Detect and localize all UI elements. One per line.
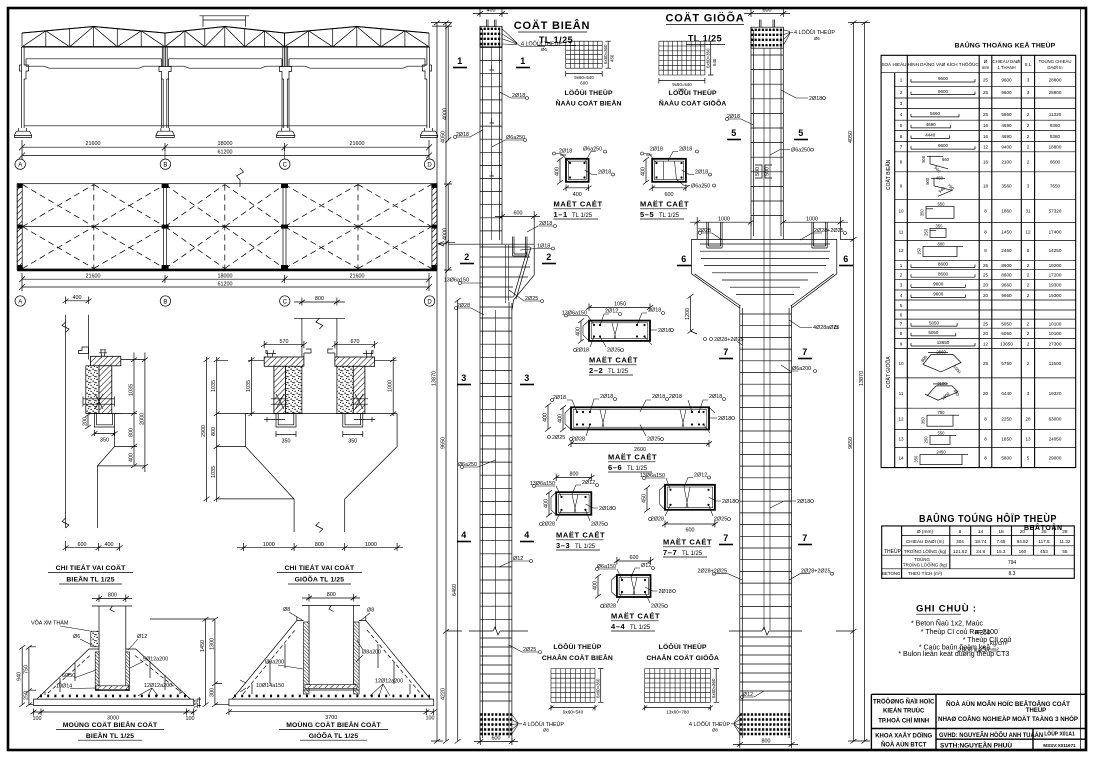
svg-text:1000: 1000 <box>263 542 275 548</box>
col bien: section mark 4 right <box>520 530 534 542</box>
svg-text:500: 500 <box>921 155 926 163</box>
svg-text:1300: 1300 <box>209 638 215 650</box>
cot giua row 9 <box>900 340 1062 346</box>
svg-text:350: 350 <box>936 223 944 228</box>
corbel detail bien: top dim 400 <box>63 295 92 304</box>
svg-text:800: 800 <box>938 242 946 247</box>
title block: svth <box>940 743 1012 750</box>
svg-text:304: 304 <box>956 539 964 544</box>
svg-text:800: 800 <box>327 592 336 598</box>
svg-text:TL 1/25: TL 1/25 <box>659 213 680 219</box>
footing bien: dashed rebar in slopes <box>45 656 182 696</box>
svg-text:2Ø18: 2Ø18 <box>648 308 661 314</box>
truss bay A-B <box>22 27 165 47</box>
svg-text:MAËT CAÉT: MAËT CAÉT <box>611 612 660 621</box>
svg-text:9: 9 <box>900 183 903 188</box>
svg-text:4: 4 <box>461 530 467 540</box>
svg-text:13870: 13870 <box>432 371 438 386</box>
svg-text:MOÙNG COÄT BIEÂN COÄT: MOÙNG COÄT BIEÂN COÄT <box>286 720 381 729</box>
svg-text:BIEÂN TL 1/25: BIEÂN TL 1/25 <box>86 731 134 740</box>
roof plan outline <box>17 184 437 270</box>
svg-text:121.62: 121.62 <box>953 549 967 554</box>
svg-text:8: 8 <box>984 248 987 253</box>
svg-text:2Ø18: 2Ø18 <box>598 169 611 175</box>
corbel giua: bolt marks right <box>351 394 368 409</box>
svg-text:1450: 1450 <box>200 640 206 652</box>
cot giua row 8 <box>900 330 1062 336</box>
svg-text:400: 400 <box>576 327 582 336</box>
svg-text:150: 150 <box>194 700 200 709</box>
svg-text:5: 5 <box>900 303 903 308</box>
svg-text:19320: 19320 <box>1049 391 1062 396</box>
svg-text:800: 800 <box>129 428 135 437</box>
svg-text:9x60=540: 9x60=540 <box>563 710 584 715</box>
svg-text:400: 400 <box>73 295 82 301</box>
svg-text:D: D <box>427 163 432 169</box>
cot giua row 3 <box>900 281 1062 287</box>
svg-text:8: 8 <box>900 331 903 336</box>
svg-text:9380: 9380 <box>1050 123 1061 128</box>
col giua: top rebar prongs <box>760 20 775 28</box>
mesh dau cot bien <box>566 41 615 85</box>
svg-text:2: 2 <box>1027 160 1030 165</box>
truss bay C-D <box>285 27 430 47</box>
svg-text:MAËT CAÉT: MAËT CAÉT <box>608 453 657 462</box>
svg-text:TL 1/25: TL 1/25 <box>572 213 593 219</box>
svg-text:9650: 9650 <box>848 437 854 449</box>
col giua: section mark 6 left <box>677 254 691 266</box>
svg-text:500: 500 <box>765 167 771 176</box>
footing giua: side hatch strips <box>304 622 360 694</box>
svg-text:1000: 1000 <box>365 542 377 548</box>
svg-text:350: 350 <box>348 439 357 445</box>
title block: project <box>938 701 1078 723</box>
corbel bien: crane rail <box>79 347 108 356</box>
svg-text:400: 400 <box>555 167 561 176</box>
svg-text:5: 5 <box>1027 455 1030 460</box>
svg-text:9600: 9600 <box>1001 90 1012 95</box>
svg-text:9660: 9660 <box>1001 283 1012 288</box>
svg-text:600: 600 <box>630 555 639 561</box>
col bien: corbel U stirrup <box>513 237 528 257</box>
col giua: mesh fan leader <box>783 29 835 45</box>
svg-text:Ø (mm): Ø (mm) <box>917 529 934 535</box>
svg-text:19200: 19200 <box>1049 263 1062 268</box>
svg-text:21600: 21600 <box>350 273 365 279</box>
svg-text:ÑAÀU COÄT GIÖÕA: ÑAÀU COÄT GIÖÕA <box>659 99 727 108</box>
plan dim line 61200 <box>19 281 432 291</box>
svg-text:500: 500 <box>755 167 761 176</box>
svg-text:3: 3 <box>1027 183 1030 188</box>
svg-text:2Ø12: 2Ø12 <box>694 472 707 478</box>
svg-text:11.32: 11.32 <box>1059 539 1071 544</box>
col bien: section mark 4 left <box>457 530 471 542</box>
svg-text:Ø6: Ø6 <box>814 36 820 41</box>
svg-text:2: 2 <box>1027 112 1030 117</box>
svg-text:S.L: S.L <box>1025 62 1032 67</box>
svg-text:6–6: 6–6 <box>608 463 622 472</box>
col giua: corbel U stirrups <box>707 223 827 249</box>
corbel bien: seat box <box>86 413 121 427</box>
svg-text:550: 550 <box>938 430 946 435</box>
svg-text:9650: 9650 <box>441 437 447 449</box>
svg-text:250: 250 <box>23 691 29 700</box>
svg-text:2: 2 <box>900 90 903 95</box>
crane beam bay C-D <box>289 59 425 68</box>
grid bubbles row 1 <box>15 147 435 169</box>
svg-text:4–4: 4–4 <box>611 622 626 631</box>
svg-text:2Ø18: 2Ø18 <box>718 416 731 422</box>
vdim chain left 13870 <box>431 21 452 744</box>
svg-text:1850: 1850 <box>1001 436 1012 441</box>
cot bien row 4 <box>900 111 1062 117</box>
svg-text:3: 3 <box>1027 391 1030 396</box>
svg-text:Ø: Ø <box>984 59 988 64</box>
svg-text:6x60=360: 6x60=360 <box>603 44 608 64</box>
col bien: corbel <box>448 216 534 310</box>
svg-text:2Ø12: 2Ø12 <box>582 480 595 486</box>
col bien: tie bars lower <box>480 318 512 619</box>
svg-text:29000: 29000 <box>1049 455 1062 460</box>
svg-text:28: 28 <box>1062 529 1068 535</box>
col bien: mesh fan leader <box>502 29 562 52</box>
cot giua row 10 <box>898 350 1061 375</box>
svg-text:21600: 21600 <box>350 141 365 147</box>
svg-text:2Ø28: 2Ø28 <box>603 604 616 610</box>
mesh chan cot bien <box>549 669 604 715</box>
svg-text:9600: 9600 <box>933 292 944 297</box>
svg-text:Ø8: Ø8 <box>543 728 549 733</box>
section 7-7 label <box>663 538 712 558</box>
svg-text:2Ø18: 2Ø18 <box>722 499 735 505</box>
section 3-3 <box>530 472 616 528</box>
corbel bien: bottom dim 600 400 <box>63 541 123 551</box>
svg-text:9x60=540: 9x60=540 <box>672 82 692 87</box>
svg-text:12: 12 <box>898 248 904 253</box>
cot bien row 3 <box>900 101 903 106</box>
col bien: mid vert dim 400 <box>543 403 566 441</box>
svg-text:61200: 61200 <box>218 150 233 156</box>
svg-text:3560: 3560 <box>1001 183 1012 188</box>
col giua: left bar label <box>704 337 744 345</box>
svg-text:C: C <box>283 299 288 305</box>
svg-text:CHIEÀU DAØI (m): CHIEÀU DAØI (m) <box>906 538 944 544</box>
svg-text:2Ø18: 2Ø18 <box>576 348 589 354</box>
footing giua: titles <box>279 720 388 740</box>
svg-text:800: 800 <box>315 542 324 548</box>
svg-text:11320: 11320 <box>1049 112 1062 117</box>
svg-text:2Ø25: 2Ø25 <box>651 604 664 610</box>
svg-text:2Ø18: 2Ø18 <box>659 589 672 595</box>
footing bien: stipple block <box>91 631 99 647</box>
svg-text:20: 20 <box>983 283 989 288</box>
section 2-2 label <box>589 356 638 376</box>
svg-text:150: 150 <box>917 247 922 255</box>
corbel bien: dim 350 <box>91 430 117 444</box>
svg-text:TL 1/25: TL 1/25 <box>575 544 596 550</box>
svg-text:2: 2 <box>464 252 470 262</box>
svg-text:CHAÂN COÄT GIÖÕA: CHAÂN COÄT GIÖÕA <box>646 653 719 662</box>
svg-text:450: 450 <box>936 175 944 180</box>
footing bien: top dim 800 <box>92 593 132 602</box>
footing giua: top dim 800 <box>302 592 360 601</box>
col giua: corbel dims 1000 <box>690 216 848 226</box>
svg-text:3: 3 <box>1027 77 1030 82</box>
svg-text:2Ø18: 2Ø18 <box>727 114 740 120</box>
svg-text:2Ø25: 2Ø25 <box>523 647 536 653</box>
svg-text:450: 450 <box>610 54 615 62</box>
table tong hop thep: frame <box>882 526 1075 578</box>
svg-text:13x60=780: 13x60=780 <box>666 710 689 715</box>
svg-text:1200: 1200 <box>685 308 691 320</box>
svg-text:1000: 1000 <box>718 216 730 222</box>
svg-text:670: 670 <box>351 339 360 345</box>
svg-text:600: 600 <box>514 211 523 217</box>
col giua: title <box>666 12 745 45</box>
svg-text:20: 20 <box>983 331 989 336</box>
svg-text:6: 6 <box>843 254 849 264</box>
svg-text:600: 600 <box>580 81 588 86</box>
svg-text:Ø6: Ø6 <box>541 47 547 52</box>
svg-text:3–3: 3–3 <box>556 541 570 550</box>
svg-text:2Ø18: 2Ø18 <box>797 499 810 505</box>
corbel giua: bolt marks left <box>271 394 288 409</box>
svg-text:13650: 13650 <box>1000 341 1013 346</box>
svg-text:9600: 9600 <box>938 143 949 148</box>
svg-text:13870: 13870 <box>859 371 865 386</box>
column C <box>280 47 292 128</box>
svg-text:A: A <box>18 163 22 169</box>
svg-text:940: 940 <box>17 672 23 681</box>
ground line elevation <box>24 125 427 127</box>
svg-text:GIÖÕA TL 1/25: GIÖÕA TL 1/25 <box>295 574 345 583</box>
corbel bien: right dim chain 2235 <box>137 353 148 473</box>
svg-text:16: 16 <box>983 123 989 128</box>
svg-text:DAØI m: DAØI m <box>1047 65 1063 70</box>
corbel bien: right dim chain 1035 800 400 <box>98 353 138 469</box>
svg-text:9: 9 <box>900 341 903 346</box>
svg-text:5: 5 <box>1027 248 1030 253</box>
svg-text:10: 10 <box>898 361 904 366</box>
svg-text:18000: 18000 <box>218 273 233 279</box>
svg-text:2Ø18: 2Ø18 <box>599 506 612 512</box>
col bien: bottom mesh block <box>480 715 512 735</box>
svg-text:THEÙP: THEÙP <box>884 548 902 555</box>
col giua: foundation line <box>729 627 802 635</box>
col bien: leader labels <box>444 92 557 654</box>
corbel giua: upper column <box>294 318 345 360</box>
svg-text:VÕA XM THÁM: VÕA XM THÁM <box>31 620 69 627</box>
col bien: section mark 3 left <box>457 373 471 385</box>
col bien: top dim 400 <box>473 8 508 17</box>
title block: school <box>873 698 935 725</box>
section 5-5 <box>641 146 716 198</box>
corbel bien: hatched corbel face <box>99 366 112 414</box>
svg-text:14: 14 <box>898 455 904 460</box>
elevation height dim 4000 <box>432 23 452 143</box>
svg-text:MAËT CAÉT: MAËT CAÉT <box>589 356 638 365</box>
svg-text:800: 800 <box>108 593 117 599</box>
col bien: section mark 2 right <box>542 252 556 264</box>
col bien: top rebar prongs <box>487 20 497 28</box>
svg-text:2Ø12: 2Ø12 <box>605 309 618 315</box>
svg-text:12: 12 <box>1025 229 1031 234</box>
svg-text:2Ø18: 2Ø18 <box>553 395 566 401</box>
section 3-3 label <box>556 531 605 551</box>
svg-text:14: 14 <box>978 529 984 535</box>
svg-text:2Ø25: 2Ø25 <box>525 296 538 302</box>
svg-text:4050: 4050 <box>848 131 854 143</box>
svg-text:COÄT GIÖÕA: COÄT GIÖÕA <box>885 356 892 388</box>
footing giua: outline <box>229 617 434 706</box>
svg-text:LÔÙP X01A1: LÔÙP X01A1 <box>1044 730 1075 738</box>
col giua: section mark 7b right <box>798 533 812 545</box>
svg-text:6440: 6440 <box>1001 391 1012 396</box>
svg-text:2Ø25: 2Ø25 <box>647 437 660 443</box>
svg-text:2: 2 <box>1027 263 1030 268</box>
svg-text:350: 350 <box>920 209 925 217</box>
svg-text:6x60=360: 6x60=360 <box>711 678 716 698</box>
svg-text:11: 11 <box>899 229 904 234</box>
svg-text:1035: 1035 <box>129 384 135 396</box>
svg-text:20: 20 <box>983 293 989 298</box>
svg-text:2Ø28: 2Ø28 <box>651 517 664 523</box>
svg-text:Ø6a250: Ø6a250 <box>583 146 602 152</box>
col giua: section mark 7b left <box>719 533 733 545</box>
svg-text:5: 5 <box>731 128 737 138</box>
col bien: section mark 1 right <box>516 56 530 68</box>
footing bien: column stub <box>92 606 132 686</box>
svg-text:SVTH:NGUYEÃN PHUÙ: SVTH:NGUYEÃN PHUÙ <box>940 743 1012 750</box>
svg-text:570: 570 <box>280 339 289 345</box>
col giua: body outline <box>740 27 792 740</box>
plan side arrow <box>438 242 447 246</box>
cot bien row 9 <box>900 175 1061 196</box>
section 4-4 label <box>611 612 660 632</box>
svg-text:55: 55 <box>1062 549 1068 554</box>
svg-text:Ø6a250: Ø6a250 <box>506 135 525 141</box>
footing giua: leader labels <box>240 607 403 696</box>
svg-text:25: 25 <box>983 112 989 117</box>
svg-text:GHI CHUÙ :: GHI CHUÙ : <box>916 603 977 615</box>
svg-text:25: 25 <box>983 77 989 82</box>
svg-text:R250: R250 <box>975 630 991 637</box>
title block: faculty <box>875 733 932 749</box>
svg-text:13: 13 <box>898 436 904 441</box>
svg-text:31: 31 <box>1025 209 1031 214</box>
svg-text:25: 25 <box>1041 529 1047 535</box>
corbel bien: beam flange hatched <box>91 356 121 366</box>
svg-text:6: 6 <box>900 312 903 317</box>
cot giua row 2 <box>900 271 1062 277</box>
corbel giua: left corbel <box>264 349 311 414</box>
corbel bien: taper outline <box>98 427 115 528</box>
svg-text:2: 2 <box>1027 283 1030 288</box>
svg-text:28800: 28800 <box>1049 90 1062 95</box>
plan dim line 21600 18000 21600 <box>19 273 432 283</box>
svg-text:3: 3 <box>900 283 903 288</box>
svg-text:5800: 5800 <box>1001 455 1012 460</box>
svg-text:12Ø12a200: 12Ø12a200 <box>144 683 172 689</box>
svg-text:57320: 57320 <box>1049 209 1062 214</box>
svg-text:5660: 5660 <box>1001 112 1012 117</box>
col bien: corbel dim 600 <box>495 211 540 220</box>
svg-text:CHI TIEÁT VAI COÄT: CHI TIEÁT VAI COÄT <box>56 563 126 572</box>
vdim chain left lower 6460 <box>452 298 461 744</box>
svg-text:400: 400 <box>543 413 549 422</box>
svg-text:1050: 1050 <box>614 302 626 308</box>
svg-text:3: 3 <box>461 373 467 383</box>
svg-text:TROÏNG LÖÏNG (kg): TROÏNG LÖÏNG (kg) <box>904 548 947 554</box>
svg-text:4: 4 <box>524 530 530 540</box>
svg-text:9600: 9600 <box>1001 77 1012 82</box>
svg-text:ÑOÀ AÙN BTCT: ÑOÀ AÙN BTCT <box>881 742 927 749</box>
svg-text:THEÚ TÍCH (m³): THEÚ TÍCH (m³) <box>908 570 943 576</box>
col bien: bottom dim 600 <box>474 736 518 745</box>
col giua: section mark 7 right <box>798 347 812 359</box>
plan column marks <box>18 184 437 269</box>
svg-text:4 LÖÔÙI THEÙP: 4 LÖÔÙI THEÙP <box>689 721 730 728</box>
svg-text:1860: 1860 <box>1001 209 1012 214</box>
svg-text:2Ø18: 2Ø18 <box>709 394 722 400</box>
corbel giua: dim 570 <box>261 339 307 348</box>
svg-text:Ø8: Ø8 <box>367 608 374 614</box>
svg-text:2: 2 <box>1027 273 1030 278</box>
svg-text:21600: 21600 <box>86 141 101 147</box>
corbel bien: bolt marks <box>83 394 115 409</box>
footing bien: bottom dims <box>30 697 201 722</box>
svg-text:2Ø25: 2Ø25 <box>591 522 604 528</box>
svg-text:2250: 2250 <box>1001 417 1012 422</box>
svg-text:2Ø18: 2Ø18 <box>456 132 469 138</box>
svg-text:TRÖÔØNG ÑAÏI HOÏC: TRÖÔØNG ÑAÏI HOÏC <box>873 698 935 706</box>
svg-text:18000: 18000 <box>218 141 233 147</box>
svg-text:794: 794 <box>1008 560 1017 566</box>
cot bien row 1 <box>900 76 1062 82</box>
cot giua row 12 <box>898 410 1061 426</box>
svg-text:800: 800 <box>570 472 579 478</box>
svg-text:5050: 5050 <box>928 330 939 335</box>
svg-text:18: 18 <box>983 183 989 188</box>
svg-text:CHAÂN COÄT BIEÂN: CHAÂN COÄT BIEÂN <box>542 653 613 662</box>
svg-text:12: 12 <box>983 341 989 346</box>
svg-text:1Ø18: 1Ø18 <box>537 243 550 249</box>
svg-text:5: 5 <box>900 123 903 128</box>
svg-text:LÖÔÙI THEÙP: LÖÔÙI THEÙP <box>553 642 601 651</box>
svg-text:6: 6 <box>900 134 903 139</box>
svg-text:25: 25 <box>983 263 989 268</box>
svg-text:3: 3 <box>524 373 530 383</box>
footing giua: stub base band <box>304 685 360 690</box>
footing giua: rebar dots <box>234 695 430 698</box>
svg-text:5050: 5050 <box>929 320 940 325</box>
corbel giua: dim 670 <box>332 339 378 348</box>
svg-text:600: 600 <box>492 736 501 742</box>
svg-text:250: 250 <box>924 228 929 236</box>
svg-text:13: 13 <box>1025 436 1031 441</box>
corbel bien: titles <box>48 563 133 584</box>
svg-text:17200: 17200 <box>1049 273 1062 278</box>
svg-text:13Ø6a150: 13Ø6a150 <box>444 278 469 284</box>
svg-text:61200: 61200 <box>218 281 233 287</box>
corbel bien: stippled concrete <box>86 366 99 414</box>
svg-text:13650: 13650 <box>937 340 950 345</box>
svg-text:2100: 2100 <box>1001 160 1012 165</box>
corbel giua: titles <box>277 563 362 584</box>
footing bien: left dim chain <box>17 645 36 707</box>
svg-text:2Ø18: 2Ø18 <box>512 93 525 99</box>
svg-text:600: 600 <box>665 192 674 198</box>
